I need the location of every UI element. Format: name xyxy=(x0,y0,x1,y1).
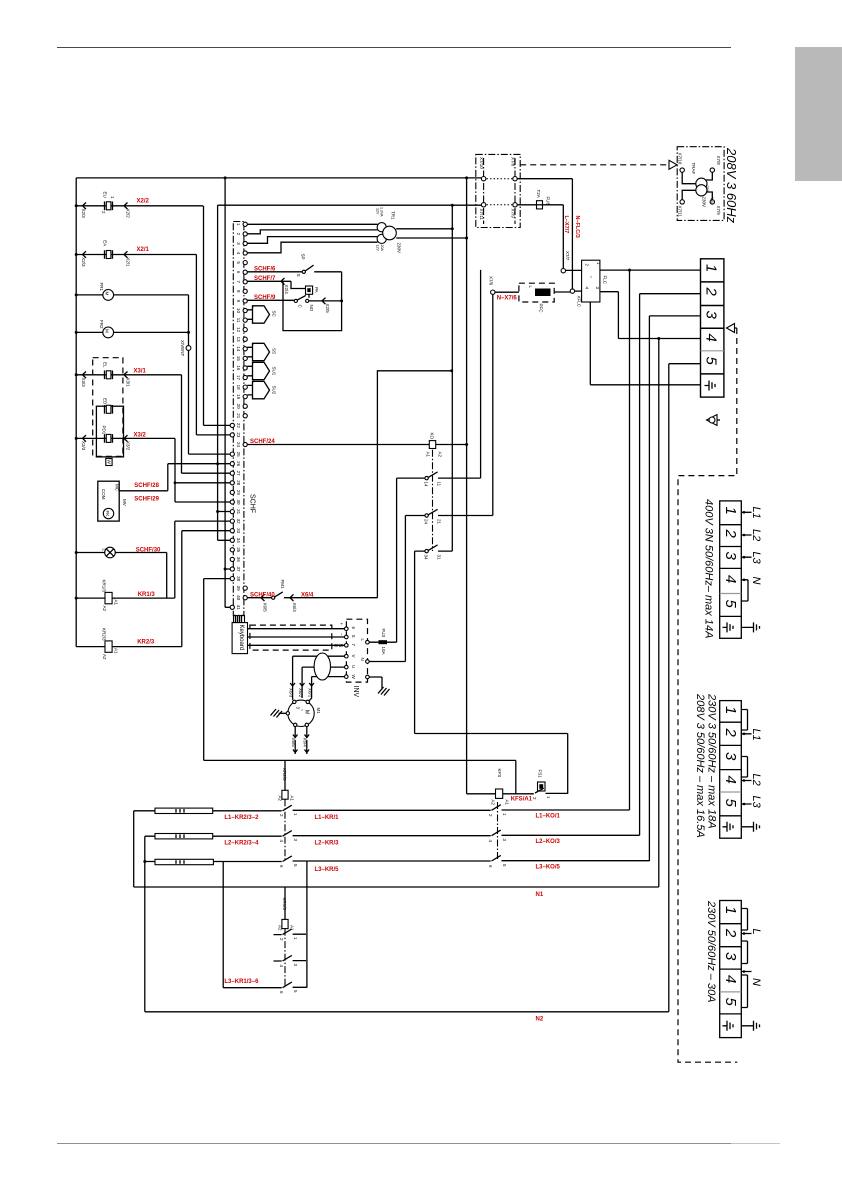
long buses down xyxy=(630,270,669,1012)
component ED xyxy=(105,405,113,414)
svg-text:3: 3 xyxy=(703,311,720,320)
svg-text:208V 3 60Hz: 208V 3 60Hz xyxy=(724,147,739,224)
transformer TRAF windings xyxy=(696,178,707,189)
svg-text:6: 6 xyxy=(351,627,356,630)
wire row L2 xyxy=(145,834,640,837)
bus TR1-N to KO31 xyxy=(451,205,453,551)
svg-text:SCHF/24: SCHF/24 xyxy=(250,439,275,445)
terminal X7/9 xyxy=(710,200,714,204)
svg-text:SCHF/6: SCHF/6 xyxy=(254,266,276,272)
svg-text:40: 40 xyxy=(236,595,241,601)
contact KR2/3 3-4 xyxy=(283,831,292,837)
svg-text:400V 3N 50/60Hz– max 14A: 400V 3N 50/60Hz– max 14A xyxy=(703,499,715,638)
bridges and wires xyxy=(741,909,751,1026)
cell wires from FLC xyxy=(600,269,701,271)
svg-text:PFC: PFC xyxy=(539,304,544,314)
svg-text:FR2: FR2 xyxy=(99,320,104,329)
svg-text:X7/11: X7/11 xyxy=(479,209,484,221)
svg-text:32: 32 xyxy=(236,519,241,525)
svg-text:SCHF/28: SCHF/28 xyxy=(134,483,159,489)
bus KO24 to INV N xyxy=(404,516,406,662)
lamp L row SCHF/30 xyxy=(105,547,116,558)
svg-text:5: 5 xyxy=(722,600,739,609)
fuse block L2 xyxy=(155,834,213,839)
svg-text:6: 6 xyxy=(279,865,284,868)
svg-text:5: 5 xyxy=(293,990,298,993)
svg-text:KR1/3: KR1/3 xyxy=(138,592,156,598)
fuse FU3 10A xyxy=(369,641,396,643)
wire SCHF/24 to contactor coil KO xyxy=(247,444,429,446)
dashed wire to TRAF xyxy=(520,164,668,166)
svg-text:230V: 230V xyxy=(702,197,707,208)
connector X/VENT xyxy=(186,346,191,351)
svg-text:X2/2: X2/2 xyxy=(137,198,150,204)
svg-text:5: 5 xyxy=(293,864,298,867)
terminal X7/8 xyxy=(513,177,517,181)
svg-text:KFS: KFS xyxy=(497,769,502,778)
bus KO34 to FS1 xyxy=(415,551,568,794)
svg-text:1: 1 xyxy=(293,937,298,940)
terminal X7/10 xyxy=(680,168,684,172)
svg-text:KO: KO xyxy=(430,433,435,440)
relay coil KR1/3 xyxy=(105,592,112,603)
component PD1 row X3/2 xyxy=(76,438,175,502)
svg-text:3: 3 xyxy=(293,839,298,842)
svg-text:23: 23 xyxy=(236,432,241,438)
relay KFS xyxy=(467,792,568,794)
svg-text:L2: L2 xyxy=(750,529,762,541)
svg-text:X6/4: X6/4 xyxy=(292,603,297,613)
terminal X7/11 xyxy=(481,203,485,207)
svg-text:X2/2: X2/2 xyxy=(126,209,131,219)
svg-text:COM: COM xyxy=(101,489,106,500)
motor FR2 xyxy=(103,327,114,338)
svg-text:X7/8: X7/8 xyxy=(511,157,516,167)
svg-text:EL: EL xyxy=(103,362,108,368)
svg-text:17: 17 xyxy=(236,375,241,381)
vertical bus to t34 xyxy=(217,205,219,540)
svg-text:SC: SC xyxy=(272,311,277,318)
svg-text:3: 3 xyxy=(293,964,298,967)
svg-text:38: 38 xyxy=(236,576,241,582)
bottom rule xyxy=(57,1143,731,1145)
svg-text:2: 2 xyxy=(236,233,241,236)
top rule xyxy=(57,47,731,49)
svg-text:X2/3: X2/3 xyxy=(81,257,86,267)
svg-text:4: 4 xyxy=(722,776,739,784)
contact KR2/3 5-6 xyxy=(283,856,292,862)
svg-text:12: 12 xyxy=(236,327,241,333)
svg-text:28: 28 xyxy=(236,480,241,486)
svg-text:X7/6: X7/6 xyxy=(489,276,494,286)
svg-text:FLC: FLC xyxy=(603,276,608,285)
svg-text:21: 21 xyxy=(437,519,442,525)
svg-text:EA: EA xyxy=(103,240,108,246)
svg-text:L3: L3 xyxy=(750,552,762,565)
svg-text:X/VENT: X/VENT xyxy=(180,340,185,357)
FR bus down to t25 xyxy=(188,295,190,454)
svg-text:8: 8 xyxy=(236,290,241,293)
wire X7/8 to FLC N xyxy=(517,179,572,289)
triangle marker xyxy=(727,324,735,333)
svg-text:5: 5 xyxy=(236,261,241,264)
connector SC xyxy=(247,310,252,320)
svg-text:V: V xyxy=(351,655,356,658)
rectifier FLC xyxy=(582,260,600,302)
svg-text:3: 3 xyxy=(722,752,739,761)
switch FM1 row SCHF/40 xyxy=(247,597,377,599)
contact KO 5-6 xyxy=(492,855,501,861)
connector SU2 xyxy=(247,385,252,395)
svg-text:U: U xyxy=(351,665,356,668)
component EU row X2/2 xyxy=(76,206,203,426)
svg-text:2: 2 xyxy=(279,814,284,817)
svg-text:N: N xyxy=(750,978,762,986)
svg-text:L3–KR1/3–6: L3–KR1/3–6 xyxy=(224,979,259,985)
svg-text:41: 41 xyxy=(236,605,241,611)
svg-text:24: 24 xyxy=(424,519,429,525)
svg-text:N–FLC/3: N–FLC/3 xyxy=(574,216,580,238)
svg-text:L1–KR2/3–2: L1–KR2/3–2 xyxy=(224,815,259,821)
svg-text:A1: A1 xyxy=(114,648,119,654)
svg-text:X3/3: X3/3 xyxy=(81,441,86,451)
svg-text:T2A: T2A xyxy=(536,190,541,198)
svg-text:11: 11 xyxy=(437,482,442,487)
contact KR1/3 3-4 xyxy=(274,960,307,962)
ground cell symbol xyxy=(723,622,734,632)
svg-text:+: + xyxy=(251,305,256,308)
svg-text:31: 31 xyxy=(437,555,442,561)
svg-text:X7/8: X7/8 xyxy=(716,156,721,166)
svg-text:230V 50/60Hz – 30A: 230V 50/60Hz – 30A xyxy=(705,900,717,1003)
svg-text:A2: A2 xyxy=(438,452,443,458)
svg-text:PD1: PD1 xyxy=(102,426,107,435)
svg-text:GND: GND xyxy=(334,643,343,648)
svg-text:MC: MC xyxy=(115,484,120,492)
svg-text:230V: 230V xyxy=(397,243,402,254)
svg-text:34: 34 xyxy=(424,555,429,561)
contact KR1/3 1-2 xyxy=(274,933,307,935)
svg-text:L1–KR/1: L1–KR/1 xyxy=(315,815,340,821)
svg-text:31: 31 xyxy=(236,509,241,515)
svg-text:11: 11 xyxy=(236,318,241,323)
svg-text:36: 36 xyxy=(236,557,241,563)
svg-text:2: 2 xyxy=(722,928,739,938)
ribbon connector xyxy=(234,616,245,623)
svg-text:230V 3 50/60Hz – max 18A: 230V 3 50/60Hz – max 18A xyxy=(706,693,718,829)
svg-text:18: 18 xyxy=(236,385,241,391)
fuse block L3 xyxy=(155,859,213,864)
left vertical bus xyxy=(75,178,77,647)
svg-text:X6/5: X6/5 xyxy=(263,603,268,613)
svg-text:4: 4 xyxy=(703,334,720,342)
transformer TR1 xyxy=(377,223,386,232)
svg-text:X3/1: X3/1 xyxy=(134,369,147,375)
svg-text:L3–KR/5: L3–KR/5 xyxy=(315,867,340,873)
bus t38 down to lower box xyxy=(203,579,205,761)
svg-text:X3/3: X3/3 xyxy=(81,378,86,388)
svg-text:13: 13 xyxy=(236,337,241,343)
svg-text:6: 6 xyxy=(488,865,493,868)
svg-text:34: 34 xyxy=(236,538,241,544)
svg-text:2: 2 xyxy=(722,728,739,738)
svg-text:+: + xyxy=(251,381,256,384)
dashed link KO xyxy=(497,802,499,861)
svg-text:15: 15 xyxy=(236,356,241,362)
svg-text:C: C xyxy=(298,305,303,309)
svg-text:6: 6 xyxy=(236,271,241,274)
svg-text:A1: A1 xyxy=(114,600,119,606)
svg-text:A2: A2 xyxy=(102,606,107,612)
svg-text:SCHF: SCHF xyxy=(249,494,256,513)
svg-text:27: 27 xyxy=(236,471,241,477)
svg-text:A2: A2 xyxy=(102,654,107,660)
wires keyboard to INV xyxy=(248,629,345,646)
svg-text:M: M xyxy=(105,292,110,296)
motor ground xyxy=(279,712,287,714)
motor M1 xyxy=(288,700,314,726)
svg-text:3: 3 xyxy=(502,839,507,842)
bus KO14 to FU3 xyxy=(396,478,398,642)
svg-text:FK: FK xyxy=(105,511,110,517)
contact KO 3-4 xyxy=(492,830,501,836)
svg-text:3: 3 xyxy=(722,552,739,561)
terminal X7/10 xyxy=(481,177,485,181)
svg-text:M1: M1 xyxy=(316,708,321,715)
svg-text:X7/9: X7/9 xyxy=(511,209,516,219)
svg-text:L1: L1 xyxy=(750,729,762,741)
contact KO 1-2 xyxy=(492,805,501,811)
svg-text:L2–KO/3: L2–KO/3 xyxy=(536,839,561,845)
box W xyxy=(106,458,112,465)
svg-text:35: 35 xyxy=(236,547,241,553)
svg-text:1: 1 xyxy=(236,223,241,226)
motor leads X6/5 X6/4 xyxy=(293,727,298,754)
svg-text:37: 37 xyxy=(236,566,241,572)
terminal X7/11 xyxy=(680,200,684,204)
contactor KR1/3 xyxy=(284,887,286,919)
svg-text:21: 21 xyxy=(236,413,241,419)
svg-text:−: − xyxy=(339,633,344,636)
strip terminal circles and numbers xyxy=(243,222,247,226)
svg-text:X2/3: X2/3 xyxy=(81,209,86,219)
wire row L1 xyxy=(134,809,630,812)
fuse FU8 T2A xyxy=(517,205,563,269)
svg-text:5: 5 xyxy=(722,799,739,808)
svg-text:33: 33 xyxy=(236,528,241,534)
svg-text:A1: A1 xyxy=(505,800,510,806)
wires INV to motor xyxy=(293,656,345,701)
component EA row X2/1 xyxy=(76,255,196,435)
ferrite ellipse xyxy=(314,653,330,680)
svg-text:20A: 20A xyxy=(380,245,384,252)
svg-text:4: 4 xyxy=(722,975,739,983)
wire TR1 secondary 2 xyxy=(396,237,466,239)
svg-text:19: 19 xyxy=(236,394,241,400)
wire N top line xyxy=(76,177,481,179)
coil KR2/3 xyxy=(284,760,286,790)
svg-text:SCHF/7: SCHF/7 xyxy=(254,276,276,282)
svg-text:X6/5: X6/5 xyxy=(291,738,296,748)
svg-text:24: 24 xyxy=(236,442,241,448)
dashed boundary xyxy=(678,328,737,1062)
svg-text:FS1: FS1 xyxy=(538,770,543,779)
svg-text:KR2/3: KR2/3 xyxy=(102,628,107,641)
svg-text:5: 5 xyxy=(351,635,356,638)
svg-text:4: 4 xyxy=(236,252,241,255)
switch SP row SCHF/6 xyxy=(247,271,341,273)
svg-text:L: L xyxy=(360,639,365,642)
svg-text:A2: A2 xyxy=(278,925,283,931)
svg-text:L: L xyxy=(750,929,762,935)
verticals to KR1/3 xyxy=(223,862,307,988)
svg-text:208V 3 50/60Hz – max 16.5A: 208V 3 50/60Hz – max 16.5A xyxy=(694,693,706,838)
svg-text:L1–KO/1: L1–KO/1 xyxy=(536,814,561,820)
svg-text:A2: A2 xyxy=(491,800,496,806)
wire FM1 up and across xyxy=(377,371,451,598)
dashed box EL/ED/PD1 xyxy=(93,358,123,457)
svg-text:EU: EU xyxy=(103,192,108,198)
svg-text:25: 25 xyxy=(236,452,241,458)
svg-text:A1: A1 xyxy=(426,452,431,458)
contact C NO row SCHF/9 xyxy=(247,299,341,302)
svg-text:XFLC: XFLC xyxy=(577,296,582,308)
contact KO 21/24 xyxy=(425,514,428,517)
wire SCHF/7 to relay PA xyxy=(247,281,305,288)
contact KR1/3 5-6 xyxy=(223,986,307,988)
svg-text:~: ~ xyxy=(589,276,594,279)
ground INV xyxy=(369,677,382,688)
svg-text:16: 16 xyxy=(236,365,241,371)
svg-text:14: 14 xyxy=(424,482,429,488)
svg-text:X7/11: X7/11 xyxy=(678,206,683,218)
svg-text:6: 6 xyxy=(279,991,284,994)
svg-text:KR2/3: KR2/3 xyxy=(282,768,287,781)
svg-text:14: 14 xyxy=(236,346,241,352)
svg-text:X6/1: X6/1 xyxy=(307,688,312,698)
wire SCHF/28 xyxy=(119,464,168,491)
svg-text:SCHF/30: SCHF/30 xyxy=(136,547,161,553)
svg-text:4: 4 xyxy=(488,840,493,843)
vertical bus to t41 xyxy=(224,178,226,608)
svg-text:SU1: SU1 xyxy=(272,367,277,376)
svg-text:X3/2: X3/2 xyxy=(126,441,131,451)
svg-text:FM1: FM1 xyxy=(280,580,285,589)
cable bundle xyxy=(250,625,332,650)
wire INV N xyxy=(369,661,405,663)
svg-text:L2–KR2/3–4: L2–KR2/3–4 xyxy=(224,841,259,847)
svg-text:2: 2 xyxy=(101,211,106,214)
svg-text:N2: N2 xyxy=(536,1017,544,1023)
svg-text:X7/9: X7/9 xyxy=(716,206,721,216)
svg-text:N: N xyxy=(750,577,762,585)
svg-text:PA: PA xyxy=(314,287,319,293)
svg-text:X2/4: X2/4 xyxy=(284,285,289,295)
wire N1 xyxy=(134,886,659,888)
svg-text:L–X7/7: L–X7/7 xyxy=(563,216,569,234)
svg-text:Keyboard: Keyboard xyxy=(238,625,244,651)
svg-text:22: 22 xyxy=(236,423,241,429)
svg-text:X6/3: X6/3 xyxy=(288,688,293,698)
bridges and wires xyxy=(741,710,751,827)
strip body xyxy=(233,222,244,616)
svg-text:X2/1: X2/1 xyxy=(137,247,150,253)
svg-text:SCHF/40: SCHF/40 xyxy=(250,592,275,598)
contact KR2/3 1-2 xyxy=(283,805,292,811)
wires t22 t23 t25 t26 t27 t31 t34 t35 t37 t38 t41 xyxy=(168,425,233,607)
svg-text:TRAF: TRAF xyxy=(691,163,696,175)
svg-text:KR2/3: KR2/3 xyxy=(137,640,155,646)
svg-text:X7/10: X7/10 xyxy=(678,153,683,165)
fuse block L1 xyxy=(155,808,213,813)
svg-text:29: 29 xyxy=(236,490,241,496)
svg-text:+: + xyxy=(251,362,256,365)
connector SS xyxy=(247,347,252,357)
svg-text:N1: N1 xyxy=(536,892,544,898)
svg-text:X3/2: X3/2 xyxy=(134,432,147,438)
svg-text:MV: MV xyxy=(122,499,127,506)
svg-text:X6/4: X6/4 xyxy=(301,592,314,598)
contact KO 31/34 xyxy=(425,549,428,552)
svg-text:1: 1 xyxy=(293,813,298,816)
svg-text:L3–KO/5: L3–KO/5 xyxy=(536,865,561,871)
terminal X7/9 xyxy=(513,203,517,207)
svg-text:26: 26 xyxy=(236,461,241,467)
svg-text:2: 2 xyxy=(488,814,493,817)
svg-text:30: 30 xyxy=(236,499,241,505)
external ground symbol xyxy=(751,622,760,632)
wire row L3 xyxy=(145,860,650,863)
svg-text:39: 39 xyxy=(236,586,241,592)
svg-text:+: + xyxy=(339,623,344,626)
svg-text:2: 2 xyxy=(532,797,537,800)
terminal X7/8 xyxy=(710,168,714,172)
svg-text:TR1: TR1 xyxy=(391,211,396,220)
svg-text:X6/2: X6/2 xyxy=(298,688,303,698)
wire TR1 secondary 1 xyxy=(396,228,452,230)
wires strip to transformer xyxy=(247,224,377,253)
svg-text:KR1/3: KR1/3 xyxy=(282,898,287,911)
svg-text:10A: 10A xyxy=(381,647,386,655)
svg-text:7: 7 xyxy=(236,281,241,284)
wire loop xyxy=(283,272,342,331)
svg-text:2: 2 xyxy=(703,287,720,297)
svg-text:FR1: FR1 xyxy=(99,283,104,292)
marker below block xyxy=(707,415,718,426)
svg-text:L3: L3 xyxy=(750,796,762,809)
keyboard xyxy=(232,623,247,654)
svg-text:L2: L2 xyxy=(750,774,762,786)
svg-text:X3/1: X3/1 xyxy=(126,378,131,388)
svg-text:NO: NO xyxy=(309,305,314,312)
svg-text:A2: A2 xyxy=(278,796,283,802)
svg-text:KFS/A1: KFS/A1 xyxy=(511,796,533,802)
connector SU1 xyxy=(247,366,252,376)
bus FLC1 to KO11 xyxy=(480,270,482,478)
filter PFC xyxy=(519,283,554,302)
svg-text:4: 4 xyxy=(722,575,739,583)
svg-text:1: 1 xyxy=(703,264,720,272)
svg-text:N: N xyxy=(360,658,365,661)
svg-text:1: 1 xyxy=(722,906,739,914)
box from t38 to FS1 xyxy=(204,760,516,793)
svg-text:INV: INV xyxy=(352,686,359,698)
svg-text:X2/1: X2/1 xyxy=(126,257,131,267)
relay PA xyxy=(306,286,313,294)
svg-text:2: 2 xyxy=(279,938,284,941)
svg-text:X7/7: X7/7 xyxy=(565,251,570,261)
svg-text:ED: ED xyxy=(103,398,108,405)
